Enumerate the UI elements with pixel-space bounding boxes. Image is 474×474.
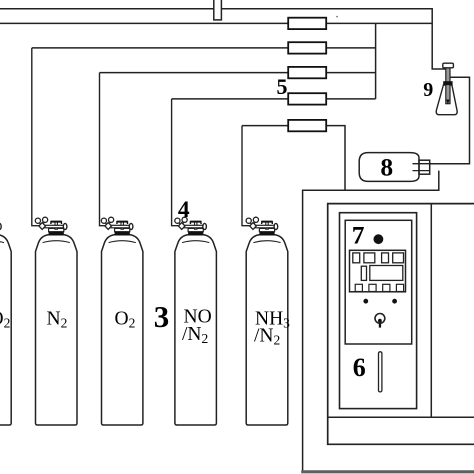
bottle 8 neck bbox=[419, 160, 430, 174]
T-handle NH3/N2 bbox=[261, 221, 273, 223]
mass flow controller 3 bbox=[288, 67, 326, 78]
gas cylinder N2 body bbox=[36, 235, 78, 425]
flask 9 stopper cap bbox=[443, 63, 454, 68]
furnace enclosure outer box bbox=[328, 204, 474, 445]
valve collar (black band) NO/N2 bbox=[188, 232, 203, 236]
thermocouple rod bbox=[379, 352, 382, 392]
pipe end cap NO/N2 bbox=[203, 223, 207, 229]
wire from line down to O2 cylinder regulator bbox=[100, 73, 106, 226]
T-handle O2 bbox=[116, 221, 128, 223]
gauge connectors N2 bbox=[39, 222, 45, 224]
svg-text:4: 4 bbox=[178, 197, 190, 223]
flask 9 inlet tube bbox=[446, 67, 450, 104]
panel indicator dots bbox=[363, 299, 368, 304]
gauge connectors NH3/N2 bbox=[250, 222, 256, 224]
cylinder O2 shoulder weld line bbox=[109, 241, 136, 243]
flask 9 tube tip bbox=[446, 100, 449, 105]
pipe end cap O2 bbox=[129, 223, 133, 229]
gauge connectors O2 bbox=[105, 222, 111, 224]
gas cylinder NH3/N2 body bbox=[246, 235, 288, 425]
furnace inner partition bbox=[430, 204, 432, 418]
svg-text:7: 7 bbox=[352, 221, 365, 250]
pressure gauge 2 NH3/N2 bbox=[253, 217, 258, 222]
regulator body (diamond) NH3/N2 bbox=[250, 223, 257, 230]
mass flow controller 5 bbox=[288, 120, 326, 131]
cylinder NO/N2 shoulder weld line bbox=[182, 241, 209, 243]
top gas line to flask 9 bbox=[0, 9, 446, 69]
pressure gauge 2 O2 bbox=[109, 217, 114, 222]
pressure gauge 1 N2 bbox=[35, 218, 40, 223]
flask 9 neck band bbox=[443, 81, 452, 85]
svg-text:9: 9 bbox=[423, 79, 433, 101]
programmer side key bbox=[361, 266, 366, 280]
valve stem N2 bbox=[55, 222, 57, 230]
O2 line to flow controller 3 bbox=[100, 72, 376, 74]
controller panel outer frame bbox=[340, 213, 417, 409]
valve collar (white band) N2 bbox=[49, 228, 64, 231]
cylinder NH3/N2 shoulder weld line bbox=[253, 241, 280, 243]
cylinder O2(partial) shoulder weld line bbox=[0, 241, 4, 243]
valve collar (white band) NH3/N2 bbox=[259, 228, 274, 231]
svg-text:6: 6 bbox=[353, 353, 366, 382]
valve horizontal pipe O2 bbox=[109, 225, 129, 228]
wire bottle 8 to flask 9 bbox=[430, 77, 470, 163]
gauge connectors NO/N2 bbox=[179, 222, 185, 224]
NH3/N2 line to flow controller 5 bbox=[242, 126, 345, 191]
grey base line bottom right bbox=[301, 470, 474, 473]
pipe end cap O2(partial) bbox=[0, 223, 1, 229]
T-handle NO/N2 bbox=[190, 221, 202, 223]
svg-text:5: 5 bbox=[277, 74, 288, 99]
temperature programmer unit bbox=[350, 250, 406, 291]
valve horizontal pipe N2 bbox=[43, 225, 63, 228]
T-handle N2 bbox=[50, 221, 62, 223]
regulator body (diamond) N2 bbox=[39, 223, 46, 230]
second gas line (through flow controller 1) bbox=[0, 22, 432, 24]
gas cylinder O2 body bbox=[102, 235, 143, 425]
valve collar (black band) NH3/N2 bbox=[259, 232, 274, 236]
controller panel inner frame bbox=[345, 220, 412, 344]
NO/N2 line to flow controller 4 bbox=[172, 98, 376, 100]
gas cylinder NO/N2 body bbox=[175, 235, 217, 425]
programmer top row keys bbox=[353, 253, 360, 263]
pressure gauge 1 NO/N2 bbox=[175, 218, 180, 223]
furnace shelf line bbox=[328, 416, 474, 418]
mass flow controller 2 bbox=[288, 42, 326, 53]
svg-text:8: 8 bbox=[380, 152, 393, 181]
regulator body (diamond) NO/N2 bbox=[178, 223, 185, 230]
mixing bus vertical bbox=[375, 23, 377, 99]
indicator dot next to 7 bbox=[374, 234, 384, 244]
regulator body (diamond) O2 bbox=[105, 223, 112, 230]
flask 9 conical body bbox=[436, 85, 457, 115]
pipe end cap NH3/N2 bbox=[274, 223, 278, 229]
stray dot speck bbox=[336, 16, 338, 18]
pressure gauge 1 O2 bbox=[101, 218, 106, 223]
wire from line down to N2 cylinder regulator bbox=[32, 48, 40, 226]
inline connector on top line bbox=[214, 0, 222, 20]
valve stem NH3/N2 bbox=[266, 222, 268, 230]
programmer bottom row keys bbox=[355, 284, 362, 291]
mass flow controller 4 bbox=[288, 93, 326, 104]
power toggle switch bbox=[375, 314, 385, 324]
gas cylinder O2(partial) body bbox=[0, 235, 11, 425]
cylinder N2 shoulder weld line bbox=[43, 241, 70, 243]
pipe end cap N2 bbox=[63, 223, 67, 229]
valve collar (white band) NO/N2 bbox=[188, 228, 203, 231]
valve stem O2 bbox=[121, 222, 123, 230]
pressure gauge 2 NO/N2 bbox=[182, 217, 187, 222]
pressure gauge 1 NH3/N2 bbox=[246, 218, 251, 223]
wire from line down to NH3/N2 cylinder regulator bbox=[242, 126, 251, 226]
valve horizontal pipe NO/N2 bbox=[183, 225, 203, 228]
line from bottle 8 down to furnace inlet bbox=[303, 171, 439, 471]
mass flow controller 1 bbox=[288, 18, 326, 29]
valve collar (white band) O2 bbox=[115, 228, 130, 231]
svg-text:3: 3 bbox=[154, 299, 170, 334]
valve stem NO/N2 bbox=[195, 222, 197, 230]
wire from line down to NO/N2 cylinder regulator bbox=[172, 99, 180, 226]
gas washing bottle 8 body bbox=[359, 153, 419, 182]
pressure gauge 2 N2 bbox=[43, 217, 48, 222]
N2 line to flow controller 2 bbox=[32, 47, 376, 49]
valve horizontal pipe NH3/N2 bbox=[254, 225, 274, 228]
valve collar (black band) N2 bbox=[49, 232, 64, 236]
valve collar (black band) O2 bbox=[115, 232, 130, 236]
programmer display window bbox=[370, 266, 403, 281]
bottle 8 inner tube lines bbox=[413, 164, 430, 171]
